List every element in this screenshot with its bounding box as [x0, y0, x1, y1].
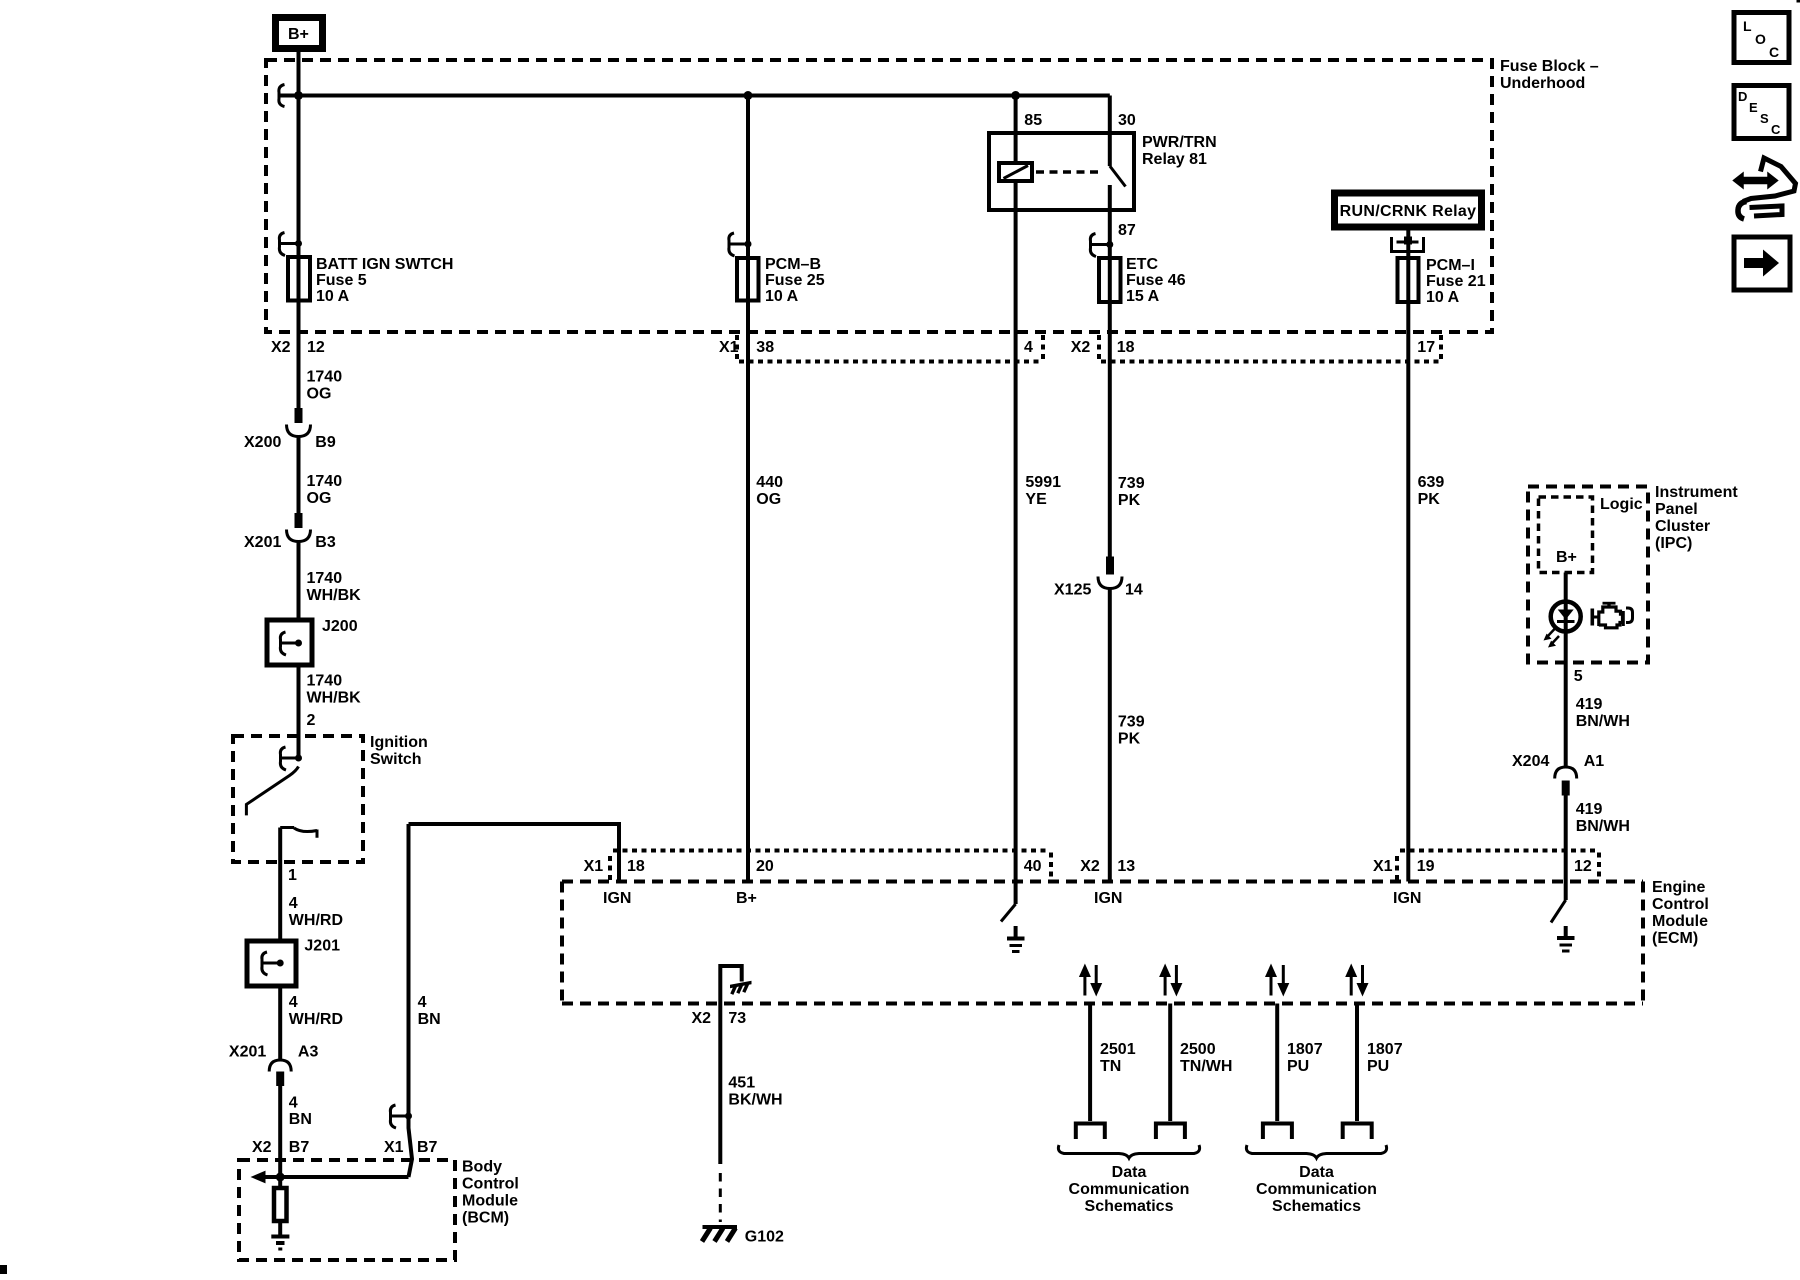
- svg-text:PCM–I: PCM–I: [1426, 257, 1475, 274]
- label 4 WH/RD upper: [289, 895, 343, 929]
- svg-text:739: 739: [1118, 714, 1145, 731]
- relay pin 30 wire: [1108, 96, 1112, 167]
- wire J201 to X201 A3: [278, 986, 282, 1061]
- relay pin 87 wire: [1108, 185, 1112, 258]
- svg-text:PK: PK: [1418, 491, 1441, 508]
- ECM pin 40 internal switch: [1001, 882, 1016, 922]
- ECM pin 12 ground: [1557, 926, 1575, 951]
- data link arrows pin 3: [1265, 964, 1289, 997]
- svg-text:OG: OG: [756, 491, 781, 508]
- svg-text:Instrument: Instrument: [1655, 484, 1738, 501]
- label Data Communication Schematics 2: [1256, 1164, 1377, 1215]
- svg-text:PK: PK: [1118, 492, 1141, 509]
- label 1740 OG lower: [307, 473, 343, 507]
- clip at bus start: [279, 85, 285, 107]
- relay PWR/TRN box: [989, 133, 1134, 210]
- svg-text:X201: X201: [244, 534, 281, 551]
- svg-text:Ignition: Ignition: [370, 734, 428, 751]
- svg-text:1740: 1740: [307, 570, 343, 587]
- nav icon arrow box: [1734, 237, 1790, 290]
- label 1807 PU b: [1367, 1041, 1403, 1075]
- svg-text:639: 639: [1418, 474, 1445, 491]
- off-page bracket 2: [1156, 1124, 1185, 1140]
- svg-text:TN/WH: TN/WH: [1180, 1058, 1232, 1075]
- label fuse 25: [765, 256, 825, 305]
- svg-text:TN: TN: [1100, 1058, 1121, 1075]
- svg-text:A1: A1: [1584, 753, 1605, 770]
- svg-text:X1: X1: [384, 1139, 404, 1156]
- svg-text:Communication: Communication: [1069, 1181, 1190, 1198]
- svg-text:Relay 81: Relay 81: [1142, 151, 1207, 168]
- svg-text:Switch: Switch: [370, 751, 422, 768]
- junction node bus/fuse5: [294, 91, 303, 100]
- svg-text:Logic: Logic: [1600, 496, 1643, 513]
- junction node bus/relay coil: [1011, 91, 1020, 100]
- engine icon: [1592, 603, 1632, 628]
- svg-text:X200: X200: [244, 434, 281, 451]
- svg-text:J200: J200: [322, 618, 358, 635]
- svg-text:WH/BK: WH/BK: [307, 690, 362, 707]
- svg-text:(IPC): (IPC): [1655, 535, 1692, 552]
- svg-text:40: 40: [1024, 858, 1042, 875]
- label 419 BN/WH lower: [1576, 801, 1630, 835]
- svg-text:G102: G102: [745, 1229, 784, 1246]
- svg-text:Schematics: Schematics: [1272, 1198, 1361, 1215]
- svg-text:BN: BN: [289, 1111, 312, 1128]
- svg-text:Fuse 21: Fuse 21: [1426, 273, 1486, 290]
- svg-text:O: O: [1755, 31, 1766, 47]
- fuse block connector X1 dotted: [737, 335, 1043, 362]
- svg-text:C: C: [1769, 44, 1779, 60]
- wire X204 to ECM pin 12: [1564, 796, 1568, 882]
- label 440 OG: [756, 474, 783, 508]
- svg-text:10 A: 10 A: [1426, 289, 1460, 306]
- svg-text:E: E: [1749, 100, 1758, 115]
- svg-text:1740: 1740: [307, 369, 343, 386]
- svg-text:4: 4: [1024, 339, 1033, 356]
- wire BCM X1 B7 riser: [409, 824, 413, 1177]
- fuse block underhood box: [266, 60, 1492, 332]
- svg-text:419: 419: [1576, 696, 1603, 713]
- page corner speck: [0, 1265, 7, 1274]
- ignition switch box: [233, 736, 363, 862]
- wire MIL to IPC pin 5: [1564, 632, 1568, 768]
- junction node bus/pcmb: [744, 91, 753, 100]
- ECM pin labels row: [584, 858, 1592, 875]
- bus wire B+ distribution: [278, 94, 1110, 98]
- svg-text:PWR/TRN: PWR/TRN: [1142, 134, 1217, 151]
- relay switch arm: [1110, 166, 1126, 187]
- data link arrows pin 2: [1159, 964, 1182, 997]
- pin label X2 18: [1071, 339, 1135, 356]
- svg-text:2500: 2500: [1180, 1041, 1216, 1058]
- svg-text:C: C: [1771, 122, 1781, 137]
- svg-text:WH/BK: WH/BK: [307, 587, 362, 604]
- label 1740 WH/BK upper: [307, 570, 362, 604]
- svg-text:30: 30: [1118, 112, 1136, 129]
- nav icon LOC: [1734, 13, 1789, 63]
- svg-text:4: 4: [289, 994, 298, 1011]
- data wire 1807 PU a: [1275, 1004, 1279, 1122]
- svg-text:Data: Data: [1112, 1164, 1147, 1181]
- splice J201: [247, 938, 340, 987]
- fuse holder cup symbol: [1392, 237, 1424, 252]
- svg-text:Cluster: Cluster: [1655, 518, 1710, 535]
- BCM box: [239, 1160, 455, 1260]
- data link arrows pin 4: [1345, 964, 1368, 997]
- ECM internal chassis ground symbol: [730, 981, 752, 994]
- BCM ground: [271, 1221, 289, 1249]
- svg-text:17: 17: [1417, 339, 1435, 356]
- pin label X2 12: [271, 339, 325, 356]
- label Data Communication Schematics 1: [1069, 1164, 1190, 1215]
- ECM pin 12 internal switch: [1551, 882, 1566, 923]
- pin label X1 38: [719, 339, 774, 356]
- clip above fuse 25: [729, 233, 752, 256]
- ECM box: [562, 882, 1643, 1004]
- wire 451 BK/WH: [718, 1004, 722, 1165]
- svg-text:PU: PU: [1287, 1058, 1309, 1075]
- wire pcm-b fuse feed: [746, 96, 750, 259]
- wire bus to fuse 5: [297, 96, 301, 258]
- svg-text:73: 73: [728, 1010, 746, 1027]
- connector X201 A3: [229, 1044, 319, 1087]
- svg-text:2501: 2501: [1100, 1041, 1136, 1058]
- ignition switch input clip: [280, 747, 302, 770]
- svg-text:Module: Module: [1652, 913, 1708, 930]
- MIL indicator LED: [1551, 601, 1581, 632]
- label Ignition Switch: [370, 734, 428, 768]
- wire run/crnk to fuse 21: [1406, 231, 1410, 259]
- label 1740 OG upper: [307, 369, 343, 403]
- ECM pin 40 ground: [1007, 926, 1025, 952]
- clip at BCM X1 B7: [390, 1105, 412, 1128]
- label 1740 WH/BK lower: [307, 673, 362, 707]
- svg-text:15 A: 15 A: [1126, 288, 1160, 305]
- fuse holder pin blob: [1404, 237, 1412, 245]
- label 739 PK upper: [1118, 475, 1145, 509]
- label Fuse Block - Underhood: [1500, 58, 1599, 92]
- label 451 BK/WH: [728, 1075, 782, 1109]
- fuse 21 PCM-I: [1398, 258, 1419, 302]
- svg-text:WH/RD: WH/RD: [289, 1011, 343, 1028]
- svg-text:PU: PU: [1367, 1058, 1389, 1075]
- svg-text:Fuse Block –: Fuse Block –: [1500, 58, 1599, 75]
- svg-text:1740: 1740: [307, 473, 343, 490]
- ignition switch movable arm: [246, 767, 298, 816]
- label Instrument Panel Cluster (IPC): [1655, 484, 1738, 552]
- svg-text:419: 419: [1576, 801, 1603, 818]
- svg-text:X1: X1: [1373, 858, 1393, 875]
- svg-text:10 A: 10 A: [316, 288, 350, 305]
- svg-text:13: 13: [1117, 858, 1135, 875]
- page corner tick top right: [1797, 0, 1800, 3]
- data wire 2500 TN/WH: [1168, 1004, 1172, 1122]
- wire X125 to ECM pin 13: [1108, 589, 1112, 882]
- svg-text:4: 4: [418, 994, 427, 1011]
- label 4 BN right: [418, 994, 441, 1028]
- fuse block connector X2 dotted: [1099, 335, 1441, 362]
- nav icon DESC: [1734, 86, 1789, 139]
- svg-text:19: 19: [1417, 858, 1435, 875]
- wire fuse 5 to pin 12: [297, 301, 301, 410]
- relay pin labels: [1024, 112, 1136, 239]
- label 739 PK lower: [1118, 714, 1145, 748]
- wire relay coil to ECM pin 40: [1014, 181, 1018, 882]
- data wire 1807 PU b: [1355, 1004, 1359, 1122]
- label fuse 46: [1126, 256, 1186, 305]
- svg-text:RUN/CRNK Relay: RUN/CRNK Relay: [1340, 203, 1477, 220]
- IPC box: [1528, 487, 1648, 663]
- svg-text:B3: B3: [315, 534, 336, 551]
- label 4 BN left: [289, 1095, 312, 1129]
- svg-text:B9: B9: [315, 434, 336, 451]
- svg-text:Schematics: Schematics: [1085, 1198, 1174, 1215]
- wire X201 to J200: [297, 542, 301, 666]
- BCM internal bus with arrow: [251, 1171, 409, 1184]
- svg-text:1807: 1807: [1287, 1041, 1323, 1058]
- svg-text:Engine: Engine: [1652, 879, 1705, 896]
- svg-text:4: 4: [289, 1095, 298, 1112]
- svg-text:A3: A3: [298, 1044, 319, 1061]
- svg-text:B7: B7: [417, 1139, 438, 1156]
- svg-text:Body: Body: [462, 1159, 502, 1176]
- svg-text:X204: X204: [1512, 753, 1549, 770]
- svg-text:10 A: 10 A: [765, 288, 799, 305]
- svg-text:X2: X2: [271, 339, 291, 356]
- svg-text:14: 14: [1125, 582, 1143, 599]
- svg-text:X2: X2: [252, 1139, 272, 1156]
- ground G102: [702, 1225, 784, 1246]
- brace group 1: [1058, 1145, 1199, 1158]
- svg-text:85: 85: [1024, 112, 1042, 129]
- ECM internal ground lead pin 73: [720, 966, 741, 1004]
- svg-text:B+: B+: [288, 26, 309, 43]
- fuse 46 ETC: [1099, 258, 1121, 302]
- wire fuse 25 to pin 38: [746, 301, 750, 882]
- svg-text:38: 38: [756, 339, 774, 356]
- svg-text:WH/RD: WH/RD: [289, 912, 343, 929]
- svg-text:B7: B7: [289, 1139, 310, 1156]
- RUN/CRNK Relay callout box: [1335, 193, 1482, 227]
- label PWR/TRN Relay 81: [1142, 134, 1217, 168]
- label fuse 5: [316, 256, 453, 305]
- svg-text:87: 87: [1118, 222, 1136, 239]
- svg-text:(ECM): (ECM): [1652, 930, 1698, 947]
- label 5991 YE: [1025, 474, 1061, 508]
- label 1807 PU a: [1287, 1041, 1323, 1075]
- label 2500 TN/WH: [1180, 1041, 1232, 1075]
- svg-text:L: L: [1743, 18, 1752, 34]
- label Engine Control Module (ECM): [1652, 879, 1709, 947]
- power symbol B+: [276, 18, 323, 49]
- connector X125 pin 14: [1054, 557, 1143, 599]
- svg-text:IGN: IGN: [1393, 890, 1421, 907]
- label 4 WH/RD lower: [289, 994, 343, 1028]
- svg-text:Control: Control: [1652, 896, 1709, 913]
- wire B+ feed down to bus: [297, 52, 301, 96]
- LED emission arrows: [1544, 629, 1560, 648]
- svg-text:OG: OG: [307, 386, 332, 403]
- wire BCM to ECM IGN top run: [409, 824, 620, 882]
- clip above fuse 5: [279, 233, 302, 256]
- wire B+ to MIL lamp: [1564, 573, 1568, 602]
- svg-text:J201: J201: [304, 938, 340, 955]
- connector X204 A1: [1512, 753, 1604, 796]
- svg-text:B+: B+: [1556, 549, 1577, 566]
- svg-text:Control: Control: [462, 1176, 519, 1193]
- splice J200: [267, 618, 358, 665]
- svg-text:ETC: ETC: [1126, 256, 1158, 273]
- svg-text:5991: 5991: [1025, 474, 1061, 491]
- svg-text:B+: B+: [736, 890, 757, 907]
- svg-text:X201: X201: [229, 1044, 266, 1061]
- label Body Control Module (BCM): [462, 1159, 519, 1227]
- wire X200 to X201: [297, 437, 301, 515]
- clip above fuse 46: [1090, 234, 1113, 257]
- IPC logic box: [1539, 497, 1593, 573]
- ECM pin net labels: [603, 890, 1421, 907]
- brace group 2: [1246, 1145, 1386, 1158]
- label 639 PK: [1418, 474, 1445, 508]
- svg-text:PCM–B: PCM–B: [765, 256, 821, 273]
- svg-text:Module: Module: [462, 1193, 518, 1210]
- pin label X1 B7: [384, 1139, 438, 1156]
- svg-text:451: 451: [728, 1075, 755, 1092]
- wire J200 to ignition switch: [297, 665, 301, 758]
- svg-text:BK/WH: BK/WH: [728, 1092, 782, 1109]
- svg-text:YE: YE: [1025, 491, 1047, 508]
- ECM connector X1 dotted box right: [1397, 851, 1599, 881]
- svg-text:BN/WH: BN/WH: [1576, 818, 1630, 835]
- svg-text:18: 18: [1117, 339, 1135, 356]
- pin label X2 B7: [252, 1139, 309, 1156]
- svg-text:Fuse 5: Fuse 5: [316, 272, 367, 289]
- svg-text:12: 12: [307, 339, 325, 356]
- svg-text:12: 12: [1574, 858, 1592, 875]
- wire X201 A3 to BCM pin B7: [278, 1086, 282, 1177]
- svg-text:PK: PK: [1118, 731, 1141, 748]
- svg-text:BN: BN: [418, 1011, 441, 1028]
- svg-text:18: 18: [627, 858, 645, 875]
- data wire 2501 TN: [1088, 1004, 1092, 1122]
- svg-text:5: 5: [1574, 668, 1583, 685]
- svg-text:Fuse 46: Fuse 46: [1126, 272, 1186, 289]
- svg-text:OG: OG: [307, 490, 332, 507]
- svg-text:Panel: Panel: [1655, 501, 1698, 518]
- label fuse 21: [1426, 257, 1486, 306]
- connector X200 B9: [244, 408, 336, 451]
- svg-text:1740: 1740: [307, 673, 343, 690]
- svg-text:20: 20: [756, 858, 774, 875]
- wire fuse 46 to pin 18: [1108, 302, 1112, 557]
- svg-text:(BCM): (BCM): [462, 1210, 509, 1227]
- svg-text:Data: Data: [1299, 1164, 1334, 1181]
- off-page bracket 1: [1076, 1124, 1105, 1140]
- svg-text:440: 440: [756, 474, 783, 491]
- svg-text:Communication: Communication: [1256, 1181, 1377, 1198]
- svg-text:IGN: IGN: [1094, 890, 1122, 907]
- ECM connector X1 dotted box left: [610, 851, 1051, 881]
- relay coil: [999, 96, 1032, 182]
- svg-text:X125: X125: [1054, 582, 1091, 599]
- label 419 BN/WH upper: [1576, 696, 1630, 730]
- svg-text:X1: X1: [584, 858, 604, 875]
- svg-text:1: 1: [288, 867, 297, 884]
- pin label X2 73: [692, 1010, 747, 1027]
- svg-text:Underhood: Underhood: [1500, 75, 1585, 92]
- off-page bracket 4: [1343, 1124, 1372, 1140]
- wire fuse 21 to ECM pin 19: [1406, 302, 1410, 882]
- data link arrows pin 1: [1079, 964, 1102, 997]
- nav icon pan arrows: [1734, 158, 1796, 219]
- relay coil to switch dashed link: [1036, 170, 1102, 174]
- svg-text:IGN: IGN: [603, 890, 631, 907]
- svg-text:1807: 1807: [1367, 1041, 1403, 1058]
- svg-text:S: S: [1760, 111, 1769, 126]
- svg-text:739: 739: [1118, 475, 1145, 492]
- svg-text:D: D: [1738, 89, 1747, 104]
- svg-text:2: 2: [307, 712, 316, 729]
- ignition switch detent arc: [280, 828, 317, 838]
- off-page bracket 3: [1263, 1124, 1292, 1140]
- label 2501 TN: [1100, 1041, 1136, 1075]
- dashed ground lead: [719, 1173, 722, 1222]
- svg-text:BATT IGN SWTCH: BATT IGN SWTCH: [316, 256, 453, 273]
- svg-text:4: 4: [289, 895, 298, 912]
- svg-text:X2: X2: [1071, 339, 1091, 356]
- connector X201 B3: [244, 513, 336, 551]
- BCM resistor: [274, 1177, 287, 1221]
- svg-text:X2: X2: [692, 1010, 712, 1027]
- svg-text:BN/WH: BN/WH: [1576, 713, 1630, 730]
- svg-text:Fuse 25: Fuse 25: [765, 272, 825, 289]
- fuse 5 BATT IGN SWTCH: [288, 257, 310, 301]
- svg-text:X2: X2: [1080, 858, 1100, 875]
- fuse 25 PCM-B: [737, 258, 759, 301]
- wire ignition pin 1 out: [278, 828, 282, 942]
